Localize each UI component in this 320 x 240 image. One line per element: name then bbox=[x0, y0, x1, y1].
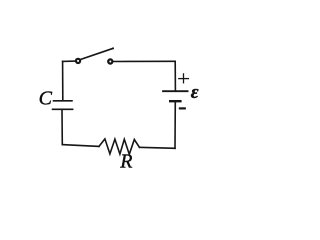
svg-text:C: C bbox=[39, 88, 53, 110]
switch terminal post (right circle) bbox=[107, 58, 113, 64]
resistor R zigzag bbox=[99, 139, 139, 154]
wire right vertical lower (battery - plate to corner) bbox=[174, 101, 176, 148]
switch blade tip nub bbox=[112, 47, 114, 49]
wire left vertical lower (capacitor bottom plate to corner) bbox=[61, 109, 63, 144]
svg-text:R: R bbox=[119, 151, 132, 173]
battery long plate (+) bbox=[163, 90, 188, 92]
wire bottom-left horizontal bbox=[62, 145, 99, 147]
battery short plate (-) bbox=[170, 100, 180, 102]
wire bottom with resistor zigzag bbox=[139, 147, 175, 148]
wire right vertical upper (corner to battery + plate) bbox=[174, 61, 176, 90]
minus sign label bbox=[180, 107, 185, 109]
wire top-right horizontal (switch to corner) bbox=[114, 60, 176, 62]
capacitor bottom plate bbox=[53, 108, 73, 110]
switch blade (open) bbox=[80, 48, 113, 59]
capacitor top plate bbox=[54, 100, 72, 102]
plus sign label bbox=[179, 74, 189, 83]
wire top-left horizontal (corner to switch terminal) bbox=[63, 60, 76, 62]
svg-text:ε: ε bbox=[191, 82, 199, 103]
switch terminal post (left circle) bbox=[75, 58, 81, 64]
wire left vertical upper (corner to capacitor top plate) bbox=[62, 61, 64, 100]
